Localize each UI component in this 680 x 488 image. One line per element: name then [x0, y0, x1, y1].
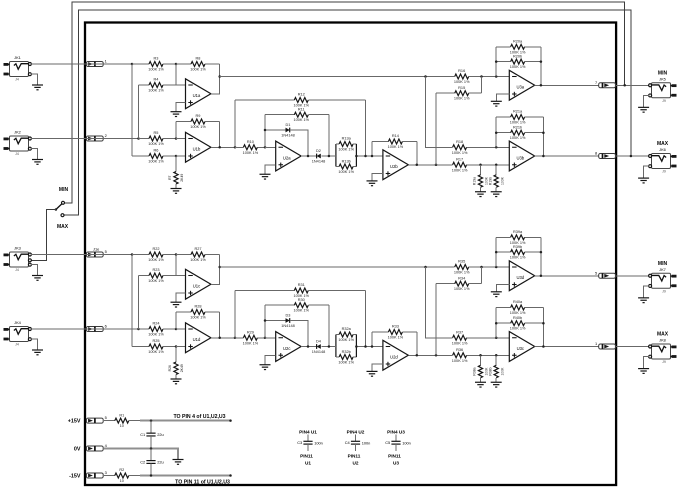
svg-text:100K 1%: 100K 1% [388, 145, 404, 149]
wire U2c output to pair [333, 346, 336, 348]
junction D1 anode [264, 129, 267, 132]
resistor R14 feedback [371, 142, 373, 157]
svg-text:100K 1%: 100K 1% [190, 68, 206, 72]
junction U2c inverting node [264, 337, 267, 340]
svg-text:100K 1%: 100K 1% [190, 125, 206, 129]
ground below R19a [475, 191, 486, 193]
svg-text:MIN: MIN [658, 261, 668, 267]
svg-text:1N4148: 1N4148 [312, 350, 325, 354]
wire U3d output to connector [535, 275, 599, 277]
svg-text:100K 1%: 100K 1% [338, 147, 354, 151]
op-amp U2d [383, 340, 408, 370]
ground at U1a + input [171, 111, 182, 113]
resistor R20b feedback [496, 61, 510, 63]
junction R15 arrival [480, 75, 483, 78]
svg-text:100K 1%: 100K 1% [293, 309, 309, 313]
ground at U3a + input [491, 100, 502, 102]
svg-text:R28: R28 [194, 305, 201, 309]
op-amp U1c [186, 269, 211, 299]
svg-text:J9: J9 [662, 289, 666, 293]
svg-text:MAX: MAX [657, 141, 669, 147]
svg-text:JK1: JK1 [14, 55, 21, 60]
svg-text:100K 1%: 100K 1% [510, 136, 526, 140]
svg-text:R32a: R32a [342, 327, 352, 331]
op-amp U3d [509, 261, 534, 291]
junction R20a left leg [495, 75, 498, 78]
connector pin 5 row A [86, 252, 103, 257]
svg-text:R19b: R19b [488, 177, 492, 185]
resistor R26 to ground [175, 347, 177, 363]
svg-text:100K 1%: 100K 1% [510, 121, 526, 125]
svg-text:U3a: U3a [516, 85, 524, 90]
svg-text:22u: 22u [157, 460, 164, 465]
svg-text:100K 1%: 100K 1% [452, 341, 468, 345]
junction D3 anode [264, 319, 267, 322]
wire U1a output to long rail [211, 77, 220, 94]
svg-text:PIN4 U3: PIN4 U3 [387, 429, 405, 434]
svg-text:R30: R30 [298, 298, 305, 302]
svg-text:JK5: JK5 [659, 76, 666, 81]
op-amp U2a [276, 141, 301, 171]
svg-text:R20b: R20b [513, 54, 522, 58]
svg-text:R8: R8 [196, 57, 201, 61]
junction R18 branch [424, 75, 427, 78]
junction U1b non-inverting input [175, 155, 178, 158]
wire U2a output to pair [333, 155, 336, 157]
svg-text:R34: R34 [458, 276, 466, 280]
junction C1 top [150, 419, 153, 422]
connector pin 5 +15V [86, 418, 103, 423]
wire switch pole to JK3 normal contact [31, 210, 56, 261]
wire U2a output [301, 155, 316, 157]
wire U3c output to connector [535, 346, 599, 348]
svg-text:R15: R15 [458, 86, 465, 90]
svg-text:100K 1%: 100K 1% [338, 361, 354, 365]
svg-text:R3: R3 [154, 57, 159, 61]
svg-text:2K49: 2K49 [180, 364, 184, 372]
wire R27 right leg down [219, 255, 221, 268]
svg-text:R11: R11 [298, 107, 305, 111]
svg-text:100K 1%: 100K 1% [148, 350, 164, 354]
junction R38b top [495, 354, 498, 357]
svg-text:R40a: R40a [513, 300, 523, 304]
diode D1 feedback [265, 130, 286, 147]
svg-text:U2b: U2b [390, 164, 398, 169]
wire U1a + input to ground [176, 103, 186, 112]
wire U2d + input to ground [372, 364, 383, 371]
resistor R5 [139, 138, 150, 140]
wire U3b output to connector [535, 155, 599, 157]
svg-text:100K: 100K [500, 176, 504, 185]
wire R36 to U3c + input [477, 354, 509, 356]
ground for JK2 sleeve [31, 149, 37, 160]
svg-text:R9: R9 [196, 114, 201, 118]
junction MAX normalling rail [630, 155, 633, 158]
svg-text:100K 1%: 100K 1% [148, 142, 164, 146]
connector pin 1 row A [86, 62, 103, 67]
resistor R21b feedback [496, 132, 510, 134]
junction D3 cathode leg [307, 345, 310, 348]
wire input B up to R4 [138, 85, 140, 139]
junction R33 left leg [371, 345, 374, 348]
svg-text:JK7: JK7 [659, 267, 666, 272]
junction R40a feedback right leg [542, 345, 545, 348]
resistor R27 feedback [176, 254, 191, 256]
svg-text:R6: R6 [154, 149, 159, 153]
svg-text:100K 1%: 100K 1% [148, 160, 164, 164]
svg-text:2K49: 2K49 [180, 174, 184, 182]
terminal +15V rail end [229, 419, 232, 422]
svg-text:R16: R16 [458, 69, 465, 73]
wire input A down to R6 [131, 64, 133, 156]
svg-text:J1e: J1e [93, 247, 99, 252]
resistor R39b feedback [496, 251, 510, 253]
svg-text:U1c: U1c [193, 284, 200, 289]
resistor R10 [235, 146, 243, 148]
wire U1c long output rail [220, 266, 446, 268]
resistor R19b to ground [495, 165, 497, 175]
svg-text:J4: J4 [15, 152, 19, 156]
resistor R6 [132, 155, 149, 157]
svg-text:100K 1%: 100K 1% [293, 294, 309, 298]
svg-text:J4: J4 [15, 343, 19, 347]
wire input B up to R23 [138, 276, 140, 330]
wire R35 to U3d input [482, 266, 510, 268]
junction MIN normalling rail [623, 84, 626, 87]
resistor R32b parallel pair bottom [339, 355, 353, 360]
connector pin 6 row B [86, 327, 103, 332]
svg-text:100K 1%: 100K 1% [293, 118, 309, 122]
junction U2a inverting node [264, 146, 267, 149]
capacitor C1 [150, 421, 152, 434]
junction R30 right leg [328, 345, 331, 348]
wire D2 cathode to R13a [322, 155, 336, 157]
output jack JK5 MIN [652, 83, 671, 98]
junction R20b right [540, 60, 543, 63]
junction R20b left [495, 60, 498, 63]
ground for JK5 sleeve [644, 95, 649, 107]
svg-text:R39b: R39b [513, 245, 522, 249]
connector pin 7 MIN out [599, 83, 616, 88]
svg-text:PIN11: PIN11 [300, 453, 313, 458]
terminal -15V rail end [229, 474, 232, 477]
svg-text:MAX: MAX [57, 224, 69, 230]
output jack JK7 MIN [652, 273, 671, 288]
svg-text:100K 1%: 100K 1% [243, 151, 259, 155]
svg-text:C2: C2 [140, 460, 145, 465]
svg-text:R23: R23 [152, 268, 159, 272]
svg-text:J9: J9 [662, 99, 666, 103]
svg-text:100K 1%: 100K 1% [510, 327, 526, 331]
svg-text:R35: R35 [458, 260, 465, 264]
svg-text:100K 1%: 100K 1% [452, 359, 468, 363]
junction R21b left [495, 131, 498, 134]
ground for JK7 sleeve [644, 286, 649, 298]
wire U2b output [408, 164, 446, 166]
output jack JK6 MAX [652, 154, 671, 169]
svg-text:10: 10 [120, 424, 124, 428]
switch SW1 lever [56, 204, 62, 210]
svg-text:1N4148: 1N4148 [312, 159, 325, 163]
svg-text:100K 1%: 100K 1% [148, 68, 164, 72]
wire pair to U2d input [356, 346, 383, 348]
resistor R30 feedback [264, 305, 266, 320]
resistor R29 [235, 337, 243, 339]
svg-text:5: 5 [105, 249, 107, 254]
input jack JK1 [10, 62, 29, 77]
svg-text:TO PIN 11 of U1,U2,U3: TO PIN 11 of U1,U2,U3 [175, 479, 230, 485]
svg-text:R26: R26 [168, 365, 172, 371]
junction R39a left leg [495, 266, 498, 269]
input jack JK2 [10, 136, 29, 151]
svg-text:100K: 100K [500, 367, 504, 376]
svg-text:R32b: R32b [342, 350, 351, 354]
ground for JK4 sleeve [31, 339, 37, 350]
wire to U2c inverting input [265, 337, 276, 339]
resistor R28 feedback [175, 312, 177, 329]
main schematic border frame [85, 23, 616, 486]
resistor R13a parallel pair top [335, 144, 337, 167]
resistor R12 long feedback [234, 100, 236, 147]
capacitor C2 [150, 449, 152, 461]
svg-text:R29: R29 [247, 330, 254, 334]
svg-text:-15V: -15V [69, 474, 81, 480]
node input B junction [137, 328, 140, 331]
node input A junction [131, 253, 134, 256]
svg-text:1N4148: 1N4148 [281, 133, 294, 137]
svg-text:R27: R27 [194, 247, 201, 251]
svg-text:PIN11: PIN11 [348, 453, 361, 458]
junction R21b right [542, 131, 545, 134]
svg-text:JK8: JK8 [659, 338, 666, 343]
svg-text:U1: U1 [305, 461, 311, 466]
junction R39a feedback right leg [540, 275, 543, 278]
svg-text:R33: R33 [392, 325, 399, 329]
svg-text:100K 1%: 100K 1% [454, 287, 470, 291]
svg-text:R7: R7 [168, 175, 172, 179]
connector pin 2 row B [86, 136, 103, 141]
svg-text:100K 1%: 100K 1% [148, 89, 164, 93]
resistor R24 [139, 328, 150, 330]
svg-text:J4: J4 [15, 78, 19, 82]
svg-text:PIN4 U2: PIN4 U2 [347, 429, 365, 434]
ground below R38b [491, 381, 502, 383]
svg-text:JK6: JK6 [659, 147, 666, 152]
ground below R26 [171, 378, 182, 380]
svg-text:R22: R22 [152, 247, 159, 251]
svg-text:R40b: R40b [513, 316, 522, 320]
svg-text:R39a: R39a [513, 230, 523, 234]
svg-text:U3c: U3c [517, 346, 524, 351]
junction R20a feedback right leg [540, 84, 543, 87]
svg-text:100K 1%: 100K 1% [148, 258, 164, 262]
svg-text:R19a: R19a [473, 177, 477, 185]
junction R40b right [542, 322, 545, 325]
junction R31 right leg [364, 345, 367, 348]
svg-text:100n: 100n [362, 440, 371, 445]
junction U1d non-inverting input [175, 345, 178, 348]
resistor R4 [139, 84, 150, 86]
junction U1d output [218, 337, 221, 340]
wire U1d output [211, 337, 235, 339]
svg-text:R24: R24 [152, 322, 160, 326]
ground for JK6 sleeve [644, 166, 649, 178]
input jack JK4 [10, 327, 29, 342]
svg-text:U2c: U2c [283, 346, 290, 351]
wire U1a long output rail [220, 76, 446, 78]
wire MIN normalling route around frame [64, 2, 624, 203]
ground for JK1 sleeve [31, 74, 37, 85]
junction R14 left leg [371, 155, 374, 158]
ground at U2a + input [260, 173, 271, 175]
junction R12 left leg [234, 146, 237, 149]
connector pin 4 0V [86, 446, 103, 451]
switch SW1 MAX contact [61, 214, 64, 217]
svg-text:R10: R10 [247, 140, 254, 144]
node U1a inverting input [175, 63, 178, 66]
resistor R36 [446, 354, 453, 356]
node input B junction [137, 137, 140, 140]
wire JK2 tip to node [31, 138, 138, 140]
resistor R7 to ground [175, 156, 177, 172]
wire U1b output [211, 146, 235, 148]
svg-text:R36: R36 [456, 348, 463, 352]
resistor R31 long feedback [234, 291, 236, 338]
capacitor C5 decoupling [395, 435, 397, 442]
svg-text:1: 1 [595, 341, 597, 346]
svg-text:D1: D1 [286, 123, 291, 127]
junction R21a left leg [495, 146, 498, 149]
svg-text:0V: 0V [74, 447, 81, 453]
svg-text:U1a: U1a [193, 93, 201, 98]
svg-text:100K 1%: 100K 1% [338, 170, 354, 174]
resistor R25 [132, 346, 149, 348]
ground at U2b + input [367, 180, 378, 182]
svg-text:D2: D2 [316, 149, 321, 153]
junction R40b left [495, 322, 498, 325]
svg-text:C3: C3 [297, 440, 302, 445]
wire -15V rail [140, 475, 231, 477]
junction U1c output [218, 266, 221, 269]
svg-text:J9: J9 [662, 360, 666, 364]
wire JK4 tip to node [31, 328, 138, 330]
wire to U1b inverting input [176, 138, 186, 140]
svg-text:5: 5 [105, 415, 107, 420]
wire MAX out to jack [616, 346, 649, 348]
svg-text:C1: C1 [140, 432, 145, 437]
resistor R38a to ground [480, 355, 482, 365]
node U1c inverting input [175, 253, 178, 256]
wire node down to U1a input [176, 64, 186, 85]
resistor R35 [446, 266, 455, 268]
wire MIN out to jack [616, 84, 649, 86]
capacitor C3 decoupling [307, 435, 309, 442]
junction R31 left leg [234, 337, 237, 340]
svg-text:+15V: +15V [68, 419, 81, 425]
junction R19b top [495, 164, 498, 167]
svg-text:PIN11: PIN11 [388, 453, 401, 458]
svg-text:U2: U2 [353, 461, 359, 466]
svg-text:R17: R17 [456, 157, 463, 161]
svg-text:6: 6 [105, 324, 107, 329]
svg-text:C4: C4 [345, 440, 351, 445]
wire to U1d non-inverting input [176, 346, 186, 348]
svg-text:PIN4 U1: PIN4 U1 [299, 429, 317, 434]
svg-text:100K 1%: 100K 1% [510, 256, 526, 260]
svg-text:100K 1%: 100K 1% [190, 258, 206, 262]
ground below R19b [491, 191, 502, 193]
svg-text:R13a: R13a [342, 137, 352, 141]
svg-text:10: 10 [120, 479, 124, 483]
ground at U1c + input [171, 301, 182, 303]
wire to U2a inverting input [265, 146, 276, 148]
connector pin 3 -15V [86, 473, 103, 478]
wire R17 to U3b + input [477, 164, 509, 166]
resistor R11 feedback [264, 115, 266, 130]
wire to U1d inverting input [176, 328, 186, 330]
wire input A down to R25 [131, 255, 133, 347]
output jack JK8 MAX [652, 344, 671, 359]
svg-text:1: 1 [105, 59, 107, 64]
ground below R7 [171, 188, 182, 190]
op-amp U1b [186, 132, 211, 162]
svg-text:JK3: JK3 [14, 246, 21, 251]
svg-text:D3: D3 [286, 314, 291, 318]
junction R39b right [540, 251, 543, 254]
svg-text:U2d: U2d [390, 355, 398, 360]
resistor R18 [426, 77, 447, 148]
svg-text:100K 1%: 100K 1% [243, 341, 259, 345]
wire +15V rail [140, 420, 231, 422]
wire U2d output [408, 354, 446, 356]
junction R11 right leg [328, 155, 331, 158]
svg-text:R12: R12 [298, 93, 305, 97]
svg-text:1N4148: 1N4148 [281, 324, 294, 328]
svg-text:U2a: U2a [283, 155, 291, 160]
junction R40a left leg [495, 337, 498, 340]
resistor R37 [426, 267, 447, 338]
junction pair right [355, 155, 358, 158]
op-amp U3c [509, 332, 534, 362]
op-amp U3a [509, 70, 534, 100]
wire U2b + input to ground [372, 174, 383, 181]
resistor R1 [104, 420, 115, 422]
svg-text:R31: R31 [298, 283, 305, 287]
diode D2 series [317, 154, 321, 159]
resistor R21a feedback [495, 117, 497, 147]
wire R16 to U3a input [482, 76, 510, 78]
resistor R19a to ground [480, 165, 482, 175]
svg-text:R21b: R21b [513, 125, 522, 129]
resistor R8 feedback [176, 63, 191, 65]
ground below R38a [475, 381, 486, 383]
connector pin 1 MAX out [599, 344, 616, 349]
svg-text:JK2: JK2 [14, 130, 21, 135]
junction R38a top [479, 354, 482, 357]
wire 0V rail to ground [104, 449, 178, 460]
resistor R40b feedback [496, 322, 510, 324]
svg-text:22u: 22u [157, 432, 164, 437]
resistor R40a feedback [495, 308, 497, 338]
wire U2c output [301, 346, 316, 348]
ground at U3d + input [491, 291, 502, 293]
wire JK1 tip to node [31, 63, 132, 65]
junction U1b output [218, 146, 221, 149]
svg-text:100K 1%: 100K 1% [454, 97, 470, 101]
junction R19a top [479, 164, 482, 167]
svg-text:MIN: MIN [658, 70, 668, 76]
wire node down to U1c input [176, 255, 186, 276]
